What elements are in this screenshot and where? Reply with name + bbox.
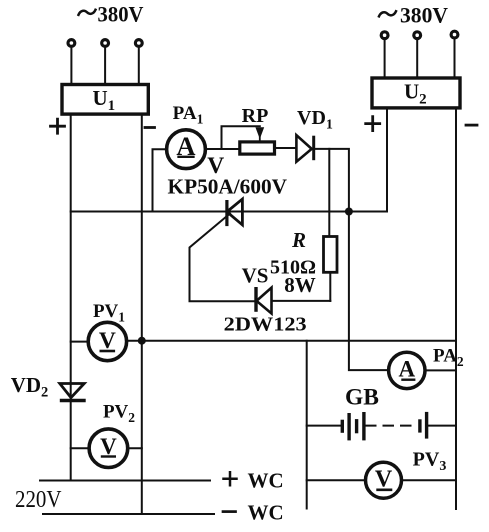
- svg-text:WC: WC: [248, 469, 284, 493]
- wire right vertical rail (U1 minus): [141, 114, 143, 514]
- voltmeter PV2: [89, 429, 128, 468]
- label + (U1 output): [51, 119, 65, 133]
- resistor R: [324, 237, 338, 273]
- arrow RP wiper: [255, 127, 264, 142]
- svg-text:VS: VS: [242, 264, 269, 288]
- wire RP to VD1: [275, 147, 297, 149]
- terminal U1 phase 2: [102, 40, 109, 47]
- terminal U2 phase 2: [414, 32, 421, 39]
- wire U2 input stems: [385, 38, 455, 78]
- wire U1 input stems: [71, 47, 138, 85]
- wire PV2 left lead: [71, 447, 90, 449]
- svg-text:KP50A/600V: KP50A/600V: [168, 175, 288, 199]
- svg-text:WC: WC: [248, 501, 284, 525]
- rectifier U1: [62, 85, 148, 115]
- label minus (U1 output): [145, 126, 155, 129]
- voltmeter PV3: [366, 462, 402, 498]
- svg-text:RP: RP: [242, 105, 269, 127]
- wire R top lead: [328, 149, 330, 237]
- wire RP wiper: [222, 126, 260, 148]
- battery GB: [342, 414, 426, 439]
- label ~380V (left AC supply): [79, 2, 144, 27]
- label + (U2 output): [366, 117, 380, 131]
- svg-text:8W: 8W: [284, 273, 316, 297]
- node bus/PA2 branch junction: [345, 208, 353, 216]
- wire PA2 to right rail: [425, 369, 456, 371]
- wire PA1 to RP: [205, 148, 239, 150]
- svg-text:GB: GB: [345, 385, 379, 411]
- terminal U2 phase 1: [381, 32, 388, 39]
- wire -WC rail: [43, 513, 214, 515]
- wire GB right lead: [428, 425, 456, 427]
- voltmeter PV1: [88, 322, 126, 360]
- wire PV2 right lead: [128, 447, 142, 449]
- wire U2 minus vertical rail: [455, 108, 457, 509]
- wire PV1 row across to U2 minus rail: [126, 340, 456, 342]
- wire thyristor gate loop: [190, 214, 255, 302]
- terminal U1 phase 3: [135, 40, 142, 47]
- svg-text:380V: 380V: [98, 2, 144, 27]
- thyristor V KP50A: [227, 199, 243, 225]
- wire R bottom lead: [329, 272, 331, 301]
- zener diode VS: [256, 288, 272, 314]
- wire VS to R bottom: [272, 300, 331, 302]
- svg-text:380V: 380V: [400, 3, 448, 28]
- rectifier U2: [372, 78, 460, 108]
- wire VD1 output down to PA2 branch: [314, 149, 389, 370]
- wire left vertical rail (U1 plus): [70, 114, 72, 481]
- diode VD2: [60, 384, 84, 401]
- label minus (U2 output): [466, 124, 477, 127]
- wire battery branch vertical: [306, 341, 308, 509]
- label ~380V (right AC supply): [379, 3, 448, 28]
- svg-text:A: A: [398, 357, 415, 382]
- node PV1 row / right rail junction: [138, 337, 146, 345]
- wire GB left lead: [307, 425, 341, 427]
- terminal U1 phase 1: [68, 40, 75, 47]
- ammeter PA2: [389, 352, 425, 388]
- rheostat RP body: [240, 142, 275, 154]
- wire PA1 branch stub: [153, 149, 167, 211]
- wire PV3 left lead: [307, 479, 366, 481]
- label -WC: [223, 501, 284, 525]
- svg-text:V: V: [100, 434, 117, 459]
- ammeter PA1: [167, 130, 206, 169]
- svg-text:220V: 220V: [15, 487, 62, 513]
- terminal U2 phase 3: [451, 31, 458, 38]
- label +WC: [224, 469, 284, 493]
- diode VD1: [296, 135, 313, 162]
- svg-text:2DW123: 2DW123: [224, 314, 307, 336]
- svg-text:R: R: [291, 228, 306, 252]
- wire PV1 left lead: [71, 341, 89, 343]
- wire +WC rail: [40, 480, 210, 482]
- wire PV3 right lead: [401, 479, 456, 481]
- wire main bus to U2 plus: [71, 108, 387, 212]
